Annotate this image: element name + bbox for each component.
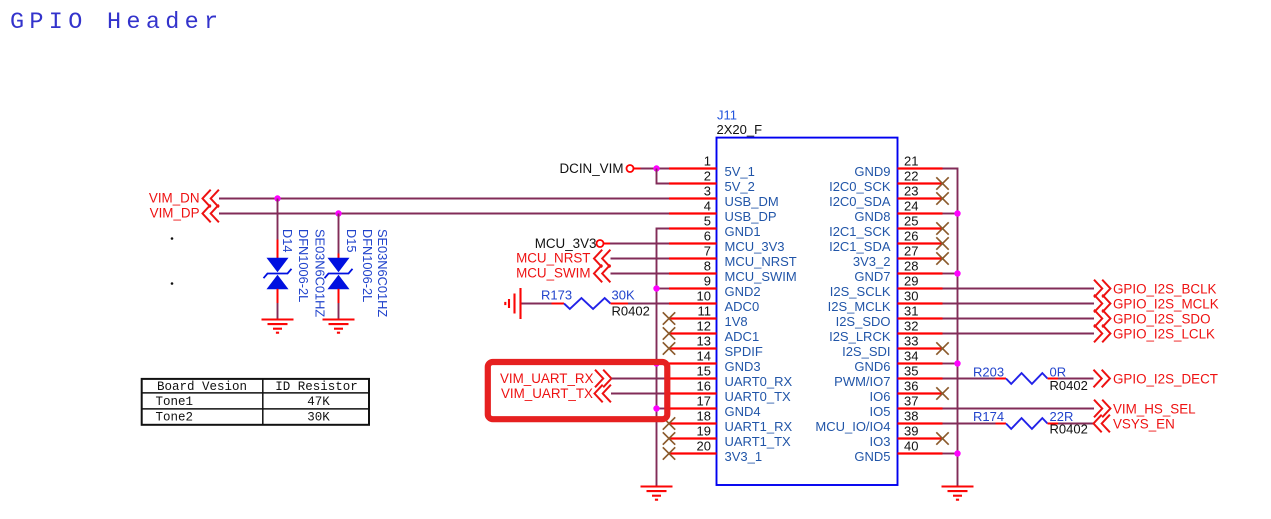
pin 17 stub [669,407,717,409]
svg-text:36: 36 [904,379,918,394]
junction VIM_DP / D15 [335,210,341,216]
diode D15 (TVS) [325,254,353,304]
stray period mark 2 [171,282,174,285]
pin 21 stub [898,167,943,169]
svg-text:8: 8 [704,259,711,274]
wire pin 30 to GPIO_I2S_MCLK [943,303,1095,305]
no-connect X on pin 18 [663,417,675,429]
svg-text:D14: D14 [280,229,295,252]
pin 13 stub [669,347,717,349]
svg-text:R173: R173 [541,288,572,303]
svg-text:5: 5 [704,214,711,229]
svg-text:UART0_TX: UART0_TX [725,389,792,404]
svg-text:26: 26 [904,229,918,244]
pin 32 stub [898,332,943,334]
svg-text:MCU_3V3: MCU_3V3 [725,239,785,254]
wire DCIN_VIM to pin 1 [634,168,641,170]
ground symbol below connector (right) [942,487,974,500]
port chevron VIM_DP [203,205,219,223]
ground left of R173 [505,288,520,319]
wire pin 31 to GPIO_I2S_SDO [943,318,1095,320]
pin 36 stub [898,392,943,394]
no-connect X on pin 13 [663,342,675,354]
svg-text:J11: J11 [717,107,737,122]
svg-text:35: 35 [904,364,918,379]
pin 29 stub [898,287,943,289]
wire pin 35 to R203 [943,378,996,380]
svg-text:15: 15 [697,364,711,379]
wire VIM_DN to pin 3 (USB_DM) [219,198,669,200]
svg-text:SE03N6C01HZ: SE03N6C01HZ [313,229,328,317]
svg-text:VIM_UART_RX: VIM_UART_RX [500,371,594,386]
port chevron VIM_DN [203,190,219,208]
svg-text:ADC1: ADC1 [725,329,760,344]
no-connect X on pin 25 [936,222,948,234]
pin 14 stub [669,362,717,364]
ground under D15 [323,320,355,333]
svg-text:MCU_NRST: MCU_NRST [516,251,590,266]
table: board version / ID resistor [142,379,369,425]
svg-text:33: 33 [904,334,918,349]
no-connect X on pin 20 [663,447,675,459]
wire ground to R173 [522,303,552,305]
svg-text:DFN1006-2L: DFN1006-2L [296,229,311,302]
port chevron VIM_HS_SEL [1094,400,1110,418]
svg-text:I2C0_SDA: I2C0_SDA [829,194,891,209]
wire VIM_DP to pin 4 (USB_DP) [219,213,669,215]
svg-text:MCU_NRST: MCU_NRST [725,254,797,269]
svg-text:D15: D15 [344,229,359,252]
svg-text:4: 4 [704,199,711,214]
junction GND3 (pin 14) [653,360,659,366]
svg-text:UART0_RX: UART0_RX [725,374,793,389]
port chevron GPIO_I2S_LCLK [1094,325,1110,343]
svg-text:GND5: GND5 [854,449,890,464]
svg-text:10: 10 [697,289,711,304]
no-connect X on pin 26 [936,237,948,249]
pin 25 stub [898,227,943,229]
pin 27 stub [898,257,943,259]
wire pin 29 to GPIO_I2S_BCLK [943,288,1095,290]
svg-text:34: 34 [904,349,918,364]
svg-text:19: 19 [697,424,711,439]
svg-text:1: 1 [704,154,711,169]
pin 23 stub [898,197,943,199]
svg-text:VIM_DN: VIM_DN [149,191,200,206]
pin 15 stub [669,377,717,379]
resistor R173 [552,298,629,309]
wire GND6 pin 34 to bus [943,363,958,365]
no-connect X on pin 33 [936,342,948,354]
pin 10 stub [669,302,717,304]
svg-text:R174: R174 [973,409,1004,424]
wire GND7 pin 28 to bus [943,273,958,275]
svg-text:IO6: IO6 [870,389,891,404]
svg-text:MCU_IO/IO4: MCU_IO/IO4 [815,419,890,434]
no-connect X on pin 23 [936,192,948,204]
pin 19 stub [669,437,717,439]
stray period mark 1 [171,237,174,240]
no-connect X on pin 22 [936,177,948,189]
svg-text:GND9: GND9 [854,164,890,179]
svg-text:37: 37 [904,394,918,409]
wire pin 38 to R174 [943,423,996,425]
svg-text:24: 24 [904,199,918,214]
svg-text:GND6: GND6 [854,359,890,374]
svg-text:PWM/IO7: PWM/IO7 [834,374,890,389]
pin 3 stub [669,197,717,199]
junction DCIN_VIM node [653,165,659,171]
svg-text:3V3_1: 3V3_1 [725,449,763,464]
port chevron GPIO_I2S_BCLK [1094,280,1110,298]
svg-text:GND8: GND8 [854,209,890,224]
pin 39 stub [898,437,943,439]
svg-text:GPIO_I2S_BCLK: GPIO_I2S_BCLK [1113,281,1217,296]
svg-text:IO5: IO5 [870,404,891,419]
svg-text:5V_1: 5V_1 [725,164,755,179]
svg-text:1V8: 1V8 [725,314,748,329]
svg-text:I2C1_SCK: I2C1_SCK [829,224,891,239]
svg-text:14: 14 [697,349,711,364]
svg-text:MCU_SWIM: MCU_SWIM [516,266,590,281]
junction GND8 (pin 24) [954,210,960,216]
no-connect X on pin 27 [936,252,948,264]
svg-text:Tone1: Tone1 [156,395,194,409]
svg-text:2X20_F: 2X20_F [717,122,763,137]
svg-text:9: 9 [704,274,711,289]
pin 37 stub [898,407,943,409]
pin 40 stub [898,452,943,454]
svg-text:30K: 30K [307,410,330,424]
svg-text:GPIO_I2S_LCLK: GPIO_I2S_LCLK [1113,326,1215,341]
ground bus wire (right) [943,169,958,487]
port chevron VIM_UART_TX [595,385,611,403]
pin 12 stub [669,332,717,334]
svg-text:R203: R203 [973,365,1004,380]
port chevron MCU_SWIM [594,265,610,283]
svg-text:MCU_SWIM: MCU_SWIM [725,269,797,284]
wire R173 to pin 10 (ADC0) [628,303,669,305]
svg-text:USB_DM: USB_DM [725,194,779,209]
pin 7 stub [669,257,717,259]
wire D14 to ground [277,303,279,320]
port circle DCIN_VIM [627,165,634,172]
svg-text:GND2: GND2 [725,284,761,299]
pin 28 stub [898,272,943,274]
svg-text:2: 2 [704,169,711,184]
no-connect X on pin 36 [936,387,948,399]
wire GND8 pin 24 to bus [943,213,958,215]
wire GND2 pin 9 to bus [657,288,670,290]
svg-text:12: 12 [697,319,711,334]
svg-text:23: 23 [904,184,918,199]
svg-text:29: 29 [904,274,918,289]
svg-text:SE03N6C01HZ: SE03N6C01HZ [375,229,390,317]
wire GND3 pin 14 to bus [657,363,670,365]
svg-text:I2S_SDI: I2S_SDI [842,344,890,359]
svg-text:MCU_3V3: MCU_3V3 [535,236,597,251]
svg-text:11: 11 [698,304,712,319]
svg-text:GPIO_I2S_SDO: GPIO_I2S_SDO [1113,311,1211,326]
svg-text:17: 17 [697,394,711,409]
svg-text:GND4: GND4 [725,404,761,419]
svg-text:UART1_TX: UART1_TX [725,434,792,449]
svg-text:3: 3 [704,184,711,199]
junction GND5 (pin 40) [954,450,960,456]
svg-text:30: 30 [904,289,918,304]
pin 2 stub [669,182,717,184]
svg-text:18: 18 [697,409,711,424]
svg-text:30K: 30K [612,288,635,303]
wire R174 to VSYS_EN [1058,423,1094,425]
svg-text:20: 20 [697,439,711,454]
svg-text:ID Resistor: ID Resistor [275,380,358,394]
svg-text:I2S_SCLK: I2S_SCLK [830,284,891,299]
pin 31 stub [898,317,943,319]
ground under D14 [262,320,294,333]
port chevron VSYS_EN [1094,415,1110,433]
svg-text:39: 39 [904,424,918,439]
svg-text:6: 6 [704,229,711,244]
no-connect X on pin 19 [663,432,675,444]
wire VIM_UART_RX to pin 15 [612,378,670,380]
pin 5 stub [669,227,717,229]
svg-text:ADC0: ADC0 [725,299,760,314]
diode D14 (TVS) [264,240,292,304]
pin 4 stub [669,212,717,214]
junction VIM_DN / D14 [274,195,280,201]
pin 6 stub [669,242,717,244]
svg-text:32: 32 [904,319,918,334]
svg-text:GPIO_I2S_MCLK: GPIO_I2S_MCLK [1113,296,1219,311]
svg-text:25: 25 [904,214,918,229]
pin 20 stub [669,452,717,454]
no-connect X on pin 11 [663,312,675,324]
pin 33 stub [898,347,943,349]
svg-text:USB_DP: USB_DP [725,209,777,224]
svg-text:SPDIF: SPDIF [725,344,763,359]
svg-text:5V_2: 5V_2 [725,179,755,194]
wire GND4 pin 17 to bus [657,408,670,410]
svg-text:22: 22 [904,169,918,184]
svg-text:GPIO_I2S_DECT: GPIO_I2S_DECT [1113,371,1218,386]
svg-text:DCIN_VIM: DCIN_VIM [560,161,624,176]
svg-text:UART1_RX: UART1_RX [725,419,793,434]
wire D15 to ground [338,303,340,320]
resistor R174 [996,418,1059,429]
svg-text:31: 31 [904,304,918,319]
wire VIM_DN down to D14 [277,199,279,240]
connector J11 body (2X20_F) [717,138,898,485]
port chevron GPIO_I2S_SDO [1094,310,1110,328]
pin 8 stub [669,272,717,274]
resistor R203 [996,373,1059,384]
wire DCIN_VIM to pin 2 [657,169,670,184]
port chevron VIM_UART_RX [595,370,611,388]
port chevron MCU_NRST [594,250,610,268]
svg-text:16: 16 [697,379,711,394]
svg-text:40: 40 [904,439,918,454]
pin 22 stub [898,182,943,184]
svg-text:VSYS_EN: VSYS_EN [1113,416,1175,431]
svg-text:38: 38 [904,409,918,424]
svg-text:I2C0_SCK: I2C0_SCK [829,179,891,194]
svg-text:VIM_UART_TX: VIM_UART_TX [501,386,593,401]
pin 35 stub [898,377,943,379]
svg-text:47K: 47K [307,395,330,409]
svg-text:GND3: GND3 [725,359,761,374]
svg-text:21: 21 [904,154,918,169]
no-connect X on pin 12 [663,327,675,339]
svg-text:I2S_MCLK: I2S_MCLK [828,299,891,314]
junction GND7 (pin 28) [954,270,960,276]
junction GND2 (pin 9) [653,285,659,291]
no-connect X on pin 39 [936,432,948,444]
pin 30 stub [898,302,943,304]
pin 24 stub [898,212,943,214]
svg-text:28: 28 [904,259,918,274]
pin 9 stub [669,287,717,289]
pin 16 stub [669,392,717,394]
svg-text:Board Vesion: Board Vesion [157,380,247,394]
ground symbol below connector (left) [641,487,673,500]
pin 18 stub [669,422,717,424]
ground bus wire (left) [657,229,670,487]
port chevron GPIO_I2S_DECT [1094,370,1110,388]
wire GND5 pin 40 to bus [943,453,958,455]
port chevron GPIO_I2S_MCLK [1094,295,1110,313]
svg-text:VIM_DP: VIM_DP [150,206,200,221]
wire pin 37 to VIM_HS_SEL [943,408,1095,410]
svg-text:I2S_SDO: I2S_SDO [836,314,891,329]
svg-text:DFN1006-2L: DFN1006-2L [360,229,375,302]
port circle MCU_3V3 [597,240,604,247]
svg-text:VIM_HS_SEL: VIM_HS_SEL [1113,401,1196,416]
red highlight box around VIM_UART_RX/TX [488,362,668,419]
svg-text:GPIO Header: GPIO Header [10,9,223,36]
pin 11 stub [669,317,717,319]
wire MCU_NRST to pin 7 [611,258,670,260]
svg-text:3V3_2: 3V3_2 [853,254,891,269]
svg-text:I2S_LRCK: I2S_LRCK [829,329,891,344]
pin 38 stub [898,422,943,424]
wire R203 to GPIO_I2S_DECT [1058,378,1094,380]
svg-text:I2C1_SDA: I2C1_SDA [829,239,891,254]
svg-text:27: 27 [904,244,918,259]
svg-text:13: 13 [697,334,711,349]
wire MCU_SWIM to pin 8 [611,273,670,275]
svg-text:Tone2: Tone2 [156,410,194,424]
pin 1 stub [669,167,717,169]
svg-text:GND1: GND1 [725,224,761,239]
wire MCU_3V3 to pin 6 [604,243,611,245]
svg-text:IO3: IO3 [870,434,891,449]
pin 34 stub [898,362,943,364]
svg-text:GND7: GND7 [854,269,890,284]
wire VIM_DP down to D15 [338,214,340,254]
svg-text:R0402: R0402 [1050,378,1088,393]
svg-text:7: 7 [704,244,711,259]
junction GND6 (pin 34) [954,360,960,366]
wire VIM_UART_TX to pin 16 [611,393,669,395]
junction GND4 (pin 17) [653,405,659,411]
svg-text:R0402: R0402 [612,303,650,318]
pin 26 stub [898,242,943,244]
wire pin 32 to GPIO_I2S_LCLK [943,333,1095,335]
